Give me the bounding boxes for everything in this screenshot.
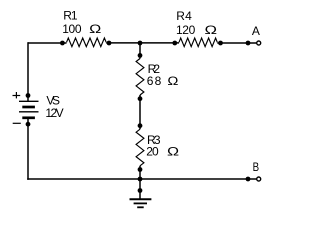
svg-text:20: 20 [146,145,159,159]
svg-text:Ω: Ω [205,24,218,37]
svg-text:R4: R4 [176,9,192,23]
svg-text:Ω: Ω [167,74,178,87]
svg-text:68: 68 [147,74,162,88]
svg-text:R1: R1 [63,8,78,22]
svg-text:12V: 12V [45,106,63,120]
svg-text:120: 120 [176,23,196,37]
svg-text:Ω: Ω [89,23,102,36]
svg-text:Ω: Ω [167,146,180,159]
svg-text:100: 100 [62,22,82,36]
svg-text:B: B [253,161,259,174]
svg-text:A: A [252,24,260,38]
